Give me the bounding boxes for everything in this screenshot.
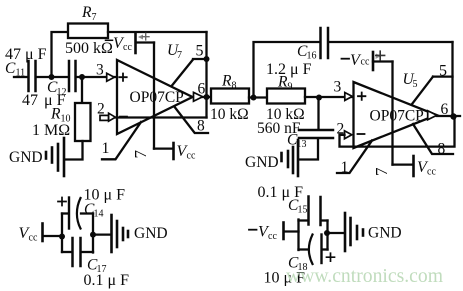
wire R9 to pin 3 U5 xyxy=(305,96,354,98)
wire right rail to ground xyxy=(93,233,110,235)
svg-text:11: 11 xyxy=(16,68,26,79)
power Vcc tap U7 top xyxy=(136,33,155,149)
svg-text:7: 7 xyxy=(131,150,150,159)
wire pin2 feedback line U7 xyxy=(115,116,206,118)
resistor R8 xyxy=(211,89,249,104)
wire pin 7 U5 to Vcc xyxy=(393,163,414,165)
ground GND1 xyxy=(9,138,64,176)
pin 1 label U7 xyxy=(102,140,110,157)
label R8 value 10 kOhm xyxy=(210,106,249,123)
pin 1 line U5 xyxy=(337,141,372,174)
wire right rail C15 network xyxy=(326,221,328,250)
node D junction dot xyxy=(316,95,322,101)
label C11 value 47 uF xyxy=(5,46,47,63)
capacitor C17 xyxy=(73,238,81,266)
svg-text:7: 7 xyxy=(177,50,182,61)
wire top branch left C15 xyxy=(299,219,308,221)
capacitor C13 xyxy=(299,130,333,138)
wire input stub xyxy=(14,76,27,78)
label R8 xyxy=(221,73,237,92)
capacitor C12 xyxy=(69,61,76,91)
resistor R7 xyxy=(68,24,108,39)
svg-text:GND: GND xyxy=(134,225,168,242)
svg-text:OP07CP: OP07CP xyxy=(130,89,184,106)
capacitor C16 xyxy=(321,28,329,58)
label OP07CP U7 xyxy=(130,89,184,106)
svg-text:R: R xyxy=(50,106,61,123)
label U7 xyxy=(167,42,182,61)
wire node A riser to R7 xyxy=(52,32,68,77)
pin 6 label U5 xyxy=(441,101,449,118)
svg-text:cc: cc xyxy=(268,231,277,242)
svg-text:6: 6 xyxy=(198,81,206,98)
label C14 xyxy=(84,201,104,220)
pin 7 label U7 rotated xyxy=(131,150,150,159)
label Vcc U5 bottom xyxy=(417,159,436,178)
label C14 value 10 uF xyxy=(84,187,126,204)
wire node D to C13 xyxy=(317,98,319,130)
ground GND3 xyxy=(112,215,168,252)
output arrow U5 xyxy=(428,111,437,120)
svg-text:cc: cc xyxy=(427,167,436,178)
label C18 value 10 uF xyxy=(264,270,306,287)
power Vcc tick U7 bottom xyxy=(172,143,175,159)
svg-text:1.2 μ F: 1.2 μ F xyxy=(266,61,312,78)
wire output rail U5 xyxy=(451,42,453,117)
wire node B to R10 xyxy=(81,77,83,103)
svg-text:GND: GND xyxy=(245,154,279,171)
op-amp U7 xyxy=(117,60,193,134)
wire C11 to node A xyxy=(37,76,68,78)
wire U7 output to R8 xyxy=(203,96,211,98)
wire right rail C14 network xyxy=(92,214,94,253)
pin 3 label U7 xyxy=(96,62,104,79)
pin 1 label U5 xyxy=(341,159,349,176)
pin 8 line U7 xyxy=(175,107,208,133)
plus sign C18 xyxy=(327,253,335,261)
power Vcc tick U5 bottom xyxy=(412,156,415,176)
svg-text:cc: cc xyxy=(29,233,38,244)
label C12 value 47 uF xyxy=(22,92,66,109)
wire top branch right C15 xyxy=(322,219,328,221)
wire -Vcc to left rail xyxy=(285,230,299,232)
wire C12 to pin3 xyxy=(77,76,118,78)
pin 1 line U7 xyxy=(102,122,141,159)
label R7 xyxy=(81,4,97,23)
pin 8 label U7 xyxy=(197,118,205,135)
pin 8 line U5 xyxy=(413,124,453,154)
junction dot output U7 xyxy=(204,94,210,100)
junction dot right rail C15 xyxy=(324,230,330,236)
svg-text:GND: GND xyxy=(9,149,43,166)
label R10 value 1 MOhm xyxy=(32,122,70,139)
ground GND4 xyxy=(345,213,402,251)
pin 6 label U7 xyxy=(198,81,206,98)
label Vcc decoupling left xyxy=(19,225,38,244)
pin 3 label U5 xyxy=(334,79,342,96)
wire pin 5 U5 xyxy=(412,77,453,104)
junction dot pin5 U7 xyxy=(204,56,210,62)
op-amp U7 plus input sign xyxy=(119,74,126,81)
label C16 value 1.2 uF xyxy=(266,61,312,78)
svg-text:3: 3 xyxy=(96,62,104,79)
capacitor C15 xyxy=(309,197,321,226)
svg-text:7: 7 xyxy=(92,12,97,23)
pin 2 label U5 xyxy=(337,121,345,138)
wire bottom branch left C17 xyxy=(62,251,72,253)
label R10 xyxy=(50,106,71,125)
label C15 xyxy=(288,197,308,216)
pin 3 arrow U5 xyxy=(345,93,353,101)
svg-text:47: 47 xyxy=(22,92,38,109)
svg-text:1 MΩ: 1 MΩ xyxy=(32,122,70,139)
svg-text:9: 9 xyxy=(288,82,293,93)
capacitor C18 polarized xyxy=(309,235,322,265)
node C junction dot xyxy=(251,95,257,101)
wire right rail to ground GND4 xyxy=(327,232,344,234)
resistor R9 xyxy=(267,89,305,104)
wire top branch left C14 xyxy=(62,212,68,214)
ground GND2 xyxy=(245,140,298,176)
wire pin 7 U7 to Vcc xyxy=(154,147,173,149)
label -Vcc U5 top xyxy=(342,52,370,69)
svg-text:15: 15 xyxy=(298,205,308,216)
svg-text:R: R xyxy=(81,4,92,21)
svg-text:0.1 μ F: 0.1 μ F xyxy=(84,272,130,289)
resistor R10 xyxy=(75,103,91,141)
power -Vcc tick decoupling right xyxy=(282,223,285,240)
svg-text:8: 8 xyxy=(232,81,237,92)
svg-text:3: 3 xyxy=(334,79,342,96)
svg-text:cc: cc xyxy=(361,57,370,68)
wire bottom branch right C17 xyxy=(82,251,94,253)
op-amp U5 minus input sign xyxy=(358,133,365,135)
svg-text:R: R xyxy=(277,74,288,91)
junction dot output U5 xyxy=(450,113,456,119)
pin 5 label U5 xyxy=(439,63,447,80)
svg-text:cc: cc xyxy=(123,42,132,53)
pin 8 label U5 xyxy=(438,141,446,158)
pin 2 stub box U7 xyxy=(100,115,109,120)
label R9 xyxy=(277,74,293,93)
label C17 xyxy=(87,257,107,276)
pin 2 label U7 xyxy=(97,101,105,118)
wire pin 5 U7 xyxy=(172,59,207,86)
wire C16 to output rail xyxy=(329,41,453,43)
label C13 xyxy=(287,132,307,151)
op-amp U5 plus input sign xyxy=(358,93,365,100)
wire C13 to ground xyxy=(299,139,318,160)
label C11 xyxy=(5,60,25,79)
power Vcc tick decoupling left xyxy=(41,224,44,242)
junction dot right rail xyxy=(90,232,96,238)
label C18 xyxy=(288,255,308,274)
svg-text:GND: GND xyxy=(368,225,402,242)
wire R7 to feedback riser xyxy=(108,31,207,33)
wire left rail C14 network xyxy=(61,214,63,253)
wire Vcc to left rail xyxy=(44,235,63,237)
label C15 value 0.1 uF xyxy=(258,184,304,201)
plus sign C14 xyxy=(58,198,66,206)
label -Vcc decoupling right xyxy=(249,224,277,243)
op-amp U5 xyxy=(354,82,437,148)
svg-text:16: 16 xyxy=(307,51,317,62)
pin 7 label U5 rotated xyxy=(372,167,391,176)
wire bottom branch left C18 xyxy=(299,248,309,250)
label C16 xyxy=(297,43,317,62)
label U5 xyxy=(403,71,418,90)
svg-text:7: 7 xyxy=(372,167,391,176)
op-amp U7 minus input sign xyxy=(120,116,127,118)
wire R8 to R9 xyxy=(249,96,267,98)
svg-text:10 kΩ: 10 kΩ xyxy=(210,106,249,123)
svg-text:5: 5 xyxy=(196,43,204,60)
power -Vcc tap U5 top xyxy=(373,52,393,165)
wire pin 2 feedback U5 xyxy=(340,118,455,147)
pin 2 arrow U7 xyxy=(109,113,116,121)
junction dot left rail xyxy=(59,234,65,240)
wire U5 output stub xyxy=(437,115,460,117)
power plus cursor mark U7 xyxy=(138,34,149,40)
node A junction dot xyxy=(49,74,55,80)
label C12 xyxy=(47,79,67,98)
node B junction dot xyxy=(79,74,85,80)
label Vcc U7 top xyxy=(113,35,132,53)
label OP07CP U5 xyxy=(370,108,424,125)
wire left rail C15 network xyxy=(297,220,299,251)
svg-text:C: C xyxy=(5,60,16,77)
svg-text:OP07CP: OP07CP xyxy=(370,108,424,125)
svg-text:5: 5 xyxy=(413,79,418,90)
label C13 value 560 nF xyxy=(257,120,301,137)
svg-text:14: 14 xyxy=(94,209,104,220)
wire R10 to ground xyxy=(66,141,83,160)
wire bottom branch right C18 xyxy=(323,248,328,250)
svg-text:8: 8 xyxy=(197,118,205,135)
svg-text:www.cntronics.com: www.cntronics.com xyxy=(286,265,443,287)
pin 5 label U7 xyxy=(196,43,204,60)
capacitor C14 polarized xyxy=(69,198,81,229)
wire feedback riser xyxy=(205,32,207,118)
power plus cursor mark U5 xyxy=(376,51,385,60)
svg-text:8: 8 xyxy=(438,141,446,158)
svg-text:1: 1 xyxy=(341,159,349,176)
watermark www.cntronics.com xyxy=(286,265,443,287)
label R7 value 500 kOhm xyxy=(65,40,113,57)
capacitor C11 xyxy=(29,61,36,91)
svg-text:500 kΩ: 500 kΩ xyxy=(65,40,113,57)
output arrow U7 xyxy=(194,92,203,101)
label Vcc U7 bottom xyxy=(177,143,196,162)
wire node C riser to C16 xyxy=(254,42,320,98)
svg-text:R: R xyxy=(221,73,232,90)
svg-text:1: 1 xyxy=(102,140,110,157)
pin 2 arrow U5 xyxy=(345,131,352,139)
label R9 value 10 kOhm xyxy=(266,106,305,123)
svg-text:cc: cc xyxy=(187,151,196,162)
pin 3 arrow U7 xyxy=(107,73,115,81)
label C17 value 0.1 uF xyxy=(84,272,130,289)
wire top branch right C14 xyxy=(81,212,93,214)
